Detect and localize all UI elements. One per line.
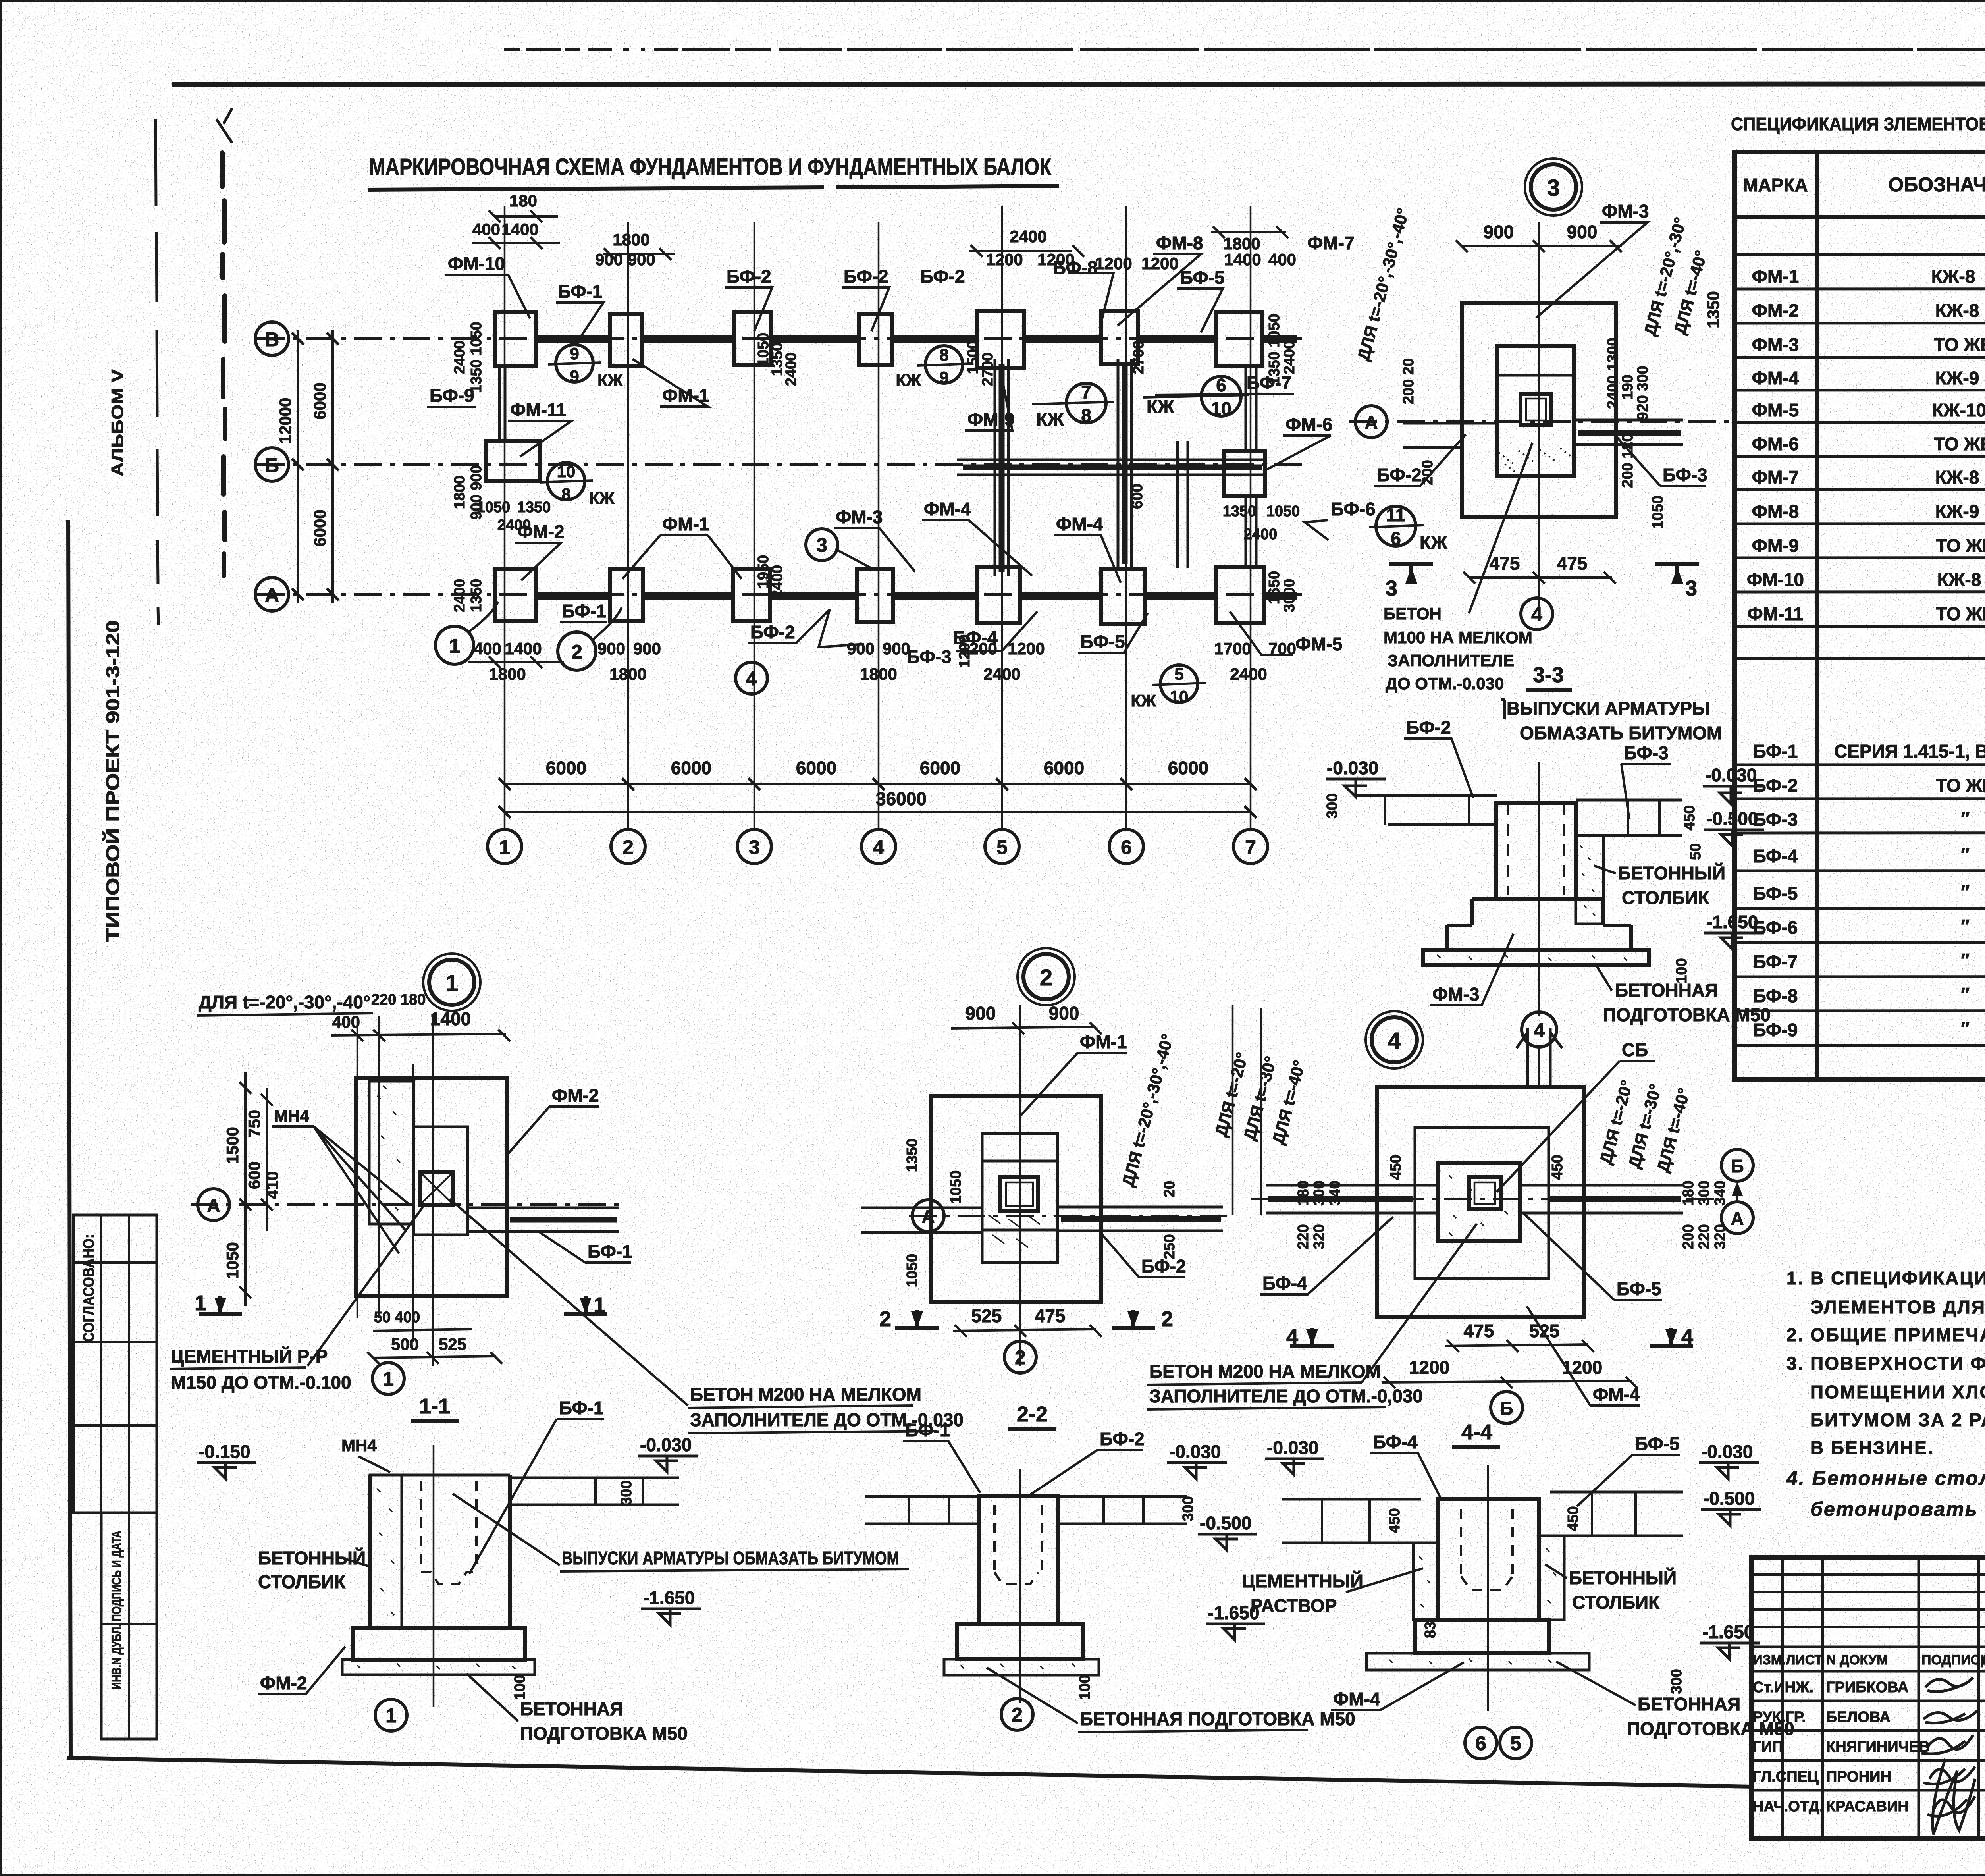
svg-text:ФМ-6: ФМ-6	[1285, 414, 1332, 435]
outer rect	[356, 1078, 507, 1296]
svg-text:А: А	[921, 1206, 935, 1227]
beam BF-9 vertical	[499, 366, 505, 441]
TITLE BLOCK	[1751, 1557, 1985, 1871]
svg-text:БЕЛОВА: БЕЛОВА	[1826, 1709, 1891, 1726]
svg-text:100: 100	[512, 1675, 528, 1700]
svg-text:ОБМАЗАТЬ БИТУМОМ: ОБМАЗАТЬ БИТУМОМ	[1520, 723, 1722, 743]
svg-text:475: 475	[1035, 1305, 1066, 1326]
base slab stippled	[342, 1660, 535, 1675]
svg-text:1350: 1350	[904, 1139, 921, 1172]
footing	[957, 1624, 1083, 1659]
svg-text:1350: 1350	[1223, 503, 1257, 520]
svg-text:100: 100	[1077, 1675, 1093, 1700]
svg-text:4: 4	[1531, 603, 1542, 625]
svg-text:8: 8	[939, 345, 948, 364]
svg-text:1200: 1200	[1409, 1357, 1449, 1378]
pier/column	[1496, 803, 1576, 899]
svg-text:100: 100	[1673, 958, 1690, 983]
svg-text:БФ-1: БФ-1	[1753, 741, 1798, 762]
beam to right	[510, 1478, 679, 1505]
foundation FM-1 col2	[610, 314, 642, 366]
DETAIL 2 plan	[861, 948, 1227, 1429]
top slab lines	[1354, 796, 1497, 825]
svg-text:ПРОНИН: ПРОНИН	[1826, 1768, 1891, 1785]
svg-text:1: 1	[449, 635, 460, 657]
svg-text:2400: 2400	[783, 353, 800, 386]
svg-text:КЖ: КЖ	[1131, 691, 1156, 710]
svg-text:ФМ-10: ФМ-10	[1747, 569, 1804, 590]
svg-text:ВЫПУСКИ АРМАТУРЫ ОБМАЗАТЬ Б: ВЫПУСКИ АРМАТУРЫ ОБМАЗАТЬ БИТУМОМ	[562, 1548, 899, 1568]
svg-text:900: 900	[1049, 1003, 1079, 1024]
svg-text:КЖ: КЖ	[589, 489, 615, 507]
svg-text:750: 750	[245, 1110, 264, 1138]
svg-text:бетонировать в одной опалубк: бетонировать в одной опалубке с фундамен…	[1810, 1498, 1985, 1520]
svg-text:4: 4	[873, 836, 884, 858]
svg-text:ФМ-11: ФМ-11	[1747, 603, 1804, 624]
top dashed border line	[504, 48, 1985, 51]
svg-text:КЖ-8: КЖ-8	[1931, 266, 1975, 287]
svg-text:1400: 1400	[430, 1008, 471, 1029]
svg-text:6000: 6000	[546, 758, 586, 778]
svg-text:БФ-1: БФ-1	[558, 281, 603, 302]
svg-text:БФ-3: БФ-3	[1753, 809, 1798, 830]
detail circle 3	[1531, 164, 1576, 210]
svg-text:БЕТОН М200 НА МЕЛКОМ: БЕТОН М200 НА МЕЛКОМ	[1149, 1361, 1381, 1382]
svg-text:1200: 1200	[1562, 1357, 1602, 1378]
svg-text:БФ-2: БФ-2	[1100, 1429, 1145, 1449]
svg-text:1800: 1800	[451, 476, 468, 509]
svg-text:БФ-2: БФ-2	[1406, 717, 1451, 738]
svg-text:450: 450	[1549, 1155, 1566, 1180]
svg-text:2400: 2400	[983, 665, 1020, 683]
svg-text:ГИП: ГИП	[1753, 1739, 1783, 1755]
stippled pier strip	[369, 1081, 414, 1224]
svg-text:9: 9	[939, 368, 948, 387]
svg-text:БФ-3: БФ-3	[1624, 742, 1669, 763]
svg-text:12000: 12000	[276, 398, 295, 444]
svg-text:400: 400	[1268, 250, 1296, 269]
svg-text:БИТУМОМ ЗА 2 РАЗА ПО ОГРУНТ: БИТУМОМ ЗА 2 РАЗА ПО ОГРУНТОВКЕ ИЗ БИТУМ…	[1810, 1409, 1985, 1430]
svg-text:КЖ-9: КЖ-9	[1935, 501, 1979, 522]
svg-text:КЖ: КЖ	[896, 371, 921, 389]
svg-text:525: 525	[971, 1305, 1002, 1326]
svg-text:320: 320	[1712, 1224, 1729, 1249]
svg-text:6000: 6000	[1044, 758, 1084, 778]
svg-text:БФ-3: БФ-3	[1663, 465, 1707, 485]
kz circle 7/8	[1066, 383, 1106, 423]
svg-text:3: 3	[1547, 175, 1560, 201]
svg-text:А: А	[207, 1195, 220, 1216]
pier rect	[1497, 346, 1574, 476]
base slab	[1423, 950, 1649, 965]
svg-text:КНЯГИНИЧЕВ: КНЯГИНИЧЕВ	[1826, 1739, 1930, 1755]
fm row lines	[1734, 289, 1985, 289]
svg-text:600: 600	[1129, 484, 1146, 509]
svg-text:ДЛЯ t=-20°,-30°,-40°: ДЛЯ t=-20°,-30°,-40°	[1354, 206, 1413, 362]
svg-text:2: 2	[1015, 1346, 1026, 1369]
svg-text:ПОДГОТОВКА М50: ПОДГОТОВКА М50	[1603, 1005, 1771, 1025]
NOTES	[1786, 1268, 1985, 1520]
svg-text:3: 3	[749, 836, 760, 858]
svg-text:БФ-2: БФ-2	[727, 266, 771, 287]
svg-text:-0.500: -0.500	[1703, 1488, 1755, 1509]
svg-text:БФ-8: БФ-8	[1053, 257, 1098, 278]
svg-text:Б: Б	[265, 454, 279, 476]
foundation FM-9 col5	[977, 311, 1024, 368]
svg-text:2400 1300: 2400 1300	[1605, 337, 1621, 409]
svg-text:900: 900	[633, 639, 661, 658]
left margin vertical texts and stamp boxes	[73, 369, 157, 1739]
svg-text:ВЫПУСКИ АРМАТУРЫ: ВЫПУСКИ АРМАТУРЫ	[1507, 698, 1710, 719]
svg-text:900: 900	[1567, 222, 1598, 242]
svg-text:2: 2	[571, 641, 582, 663]
svg-text:БЕТОННАЯ ПОДГОТОВКА М50: БЕТОННАЯ ПОДГОТОВКА М50	[1080, 1708, 1355, 1729]
beams both sides	[1282, 1499, 1421, 1620]
svg-text:1350 1050: 1350 1050	[468, 322, 485, 393]
svg-text:БФ-4: БФ-4	[1373, 1432, 1418, 1452]
svg-text:БФ-5: БФ-5	[1635, 1433, 1680, 1454]
section marks 3	[1389, 564, 1433, 584]
center line	[1538, 762, 1540, 1016]
foundation FM-4 col5	[977, 567, 1020, 623]
svg-text:ФМ-2: ФМ-2	[1752, 300, 1799, 321]
step	[1415, 1620, 1549, 1653]
svg-text:1350: 1350	[1704, 291, 1723, 328]
foundation FM-1 col3	[733, 569, 770, 621]
svg-text:1: 1	[499, 836, 510, 858]
svg-text:-0.030: -0.030	[1705, 765, 1757, 785]
svg-text:1800: 1800	[609, 665, 646, 683]
beams along axis B	[536, 335, 1297, 343]
left outer border (lower)	[68, 520, 71, 1759]
svg-text:1: 1	[383, 1368, 394, 1390]
svg-text:КЖ: КЖ	[1147, 396, 1174, 417]
kz circle 8/9	[925, 346, 963, 383]
circle 1	[375, 1699, 407, 1731]
svg-text:КЖ: КЖ	[1420, 532, 1447, 553]
svg-text:ФМ-4: ФМ-4	[1593, 1384, 1640, 1405]
column with formwork	[1438, 1499, 1539, 1620]
svg-text:2400: 2400	[1010, 227, 1046, 246]
svg-text:1650: 1650	[1266, 571, 1283, 605]
svg-text:-1.650: -1.650	[643, 1587, 695, 1608]
svg-text:6000: 6000	[671, 758, 711, 778]
svg-text:″: ″	[1961, 808, 1970, 829]
svg-text:450: 450	[1565, 1506, 1582, 1531]
circle 4 below	[1521, 598, 1553, 630]
svg-text:36000: 36000	[876, 789, 927, 809]
svg-text:ДАТА: ДАТА	[1981, 1652, 1985, 1668]
svg-text:1500: 1500	[965, 341, 981, 374]
svg-text:2: 2	[622, 836, 634, 858]
left stamp grid upper	[73, 1215, 157, 1513]
svg-text:КЖ-9: КЖ-9	[1935, 368, 1979, 388]
concrete post stippled	[1576, 835, 1603, 924]
svg-text:Б: Б	[1731, 1156, 1744, 1176]
svg-text:-0.030: -0.030	[1327, 758, 1378, 778]
svg-text:200: 200	[1419, 460, 1436, 485]
svg-text:475: 475	[1557, 553, 1588, 574]
svg-text:БФ-8: БФ-8	[1753, 985, 1798, 1006]
svg-text:СТОЛБИК: СТОЛБИК	[258, 1571, 346, 1592]
column circles	[488, 829, 522, 864]
axis A	[191, 1203, 619, 1206]
top column stub	[1517, 1028, 1562, 1088]
center line	[1019, 1469, 1021, 1703]
svg-text:3: 3	[816, 534, 827, 556]
center line	[433, 1445, 435, 1707]
svg-text:5: 5	[1510, 1732, 1521, 1755]
svg-text:410: 410	[263, 1171, 281, 1199]
svg-text:4: 4	[1534, 1019, 1545, 1041]
svg-text:ФМ-8: ФМ-8	[1752, 501, 1799, 522]
svg-text:Ст.ИНЖ.: Ст.ИНЖ.	[1753, 1679, 1813, 1696]
svg-text:ДЛЯ t=-20°,-30°,-40°: ДЛЯ t=-20°,-30°,-40°	[1118, 1032, 1177, 1188]
column vertical lines	[504, 206, 506, 829]
inner rect	[1415, 1128, 1549, 1278]
svg-text:1200: 1200	[956, 634, 973, 668]
svg-text:6000: 6000	[920, 758, 960, 778]
svg-text:В: В	[265, 328, 279, 351]
axis row lines dash-dot	[257, 337, 1310, 340]
svg-text:ИЗМ.ЛИСТ: ИЗМ.ЛИСТ	[1753, 1652, 1823, 1668]
cement patches stippled	[1413, 1543, 1438, 1620]
svg-text:3: 3	[1685, 576, 1697, 600]
svg-text:900: 900	[883, 639, 910, 658]
svg-text:ТО ЖЕ: ТО ЖЕ	[1936, 603, 1985, 624]
svg-text:300: 300	[1311, 1180, 1328, 1205]
svg-text:БЕТОННАЯ: БЕТОННАЯ	[1638, 1694, 1740, 1714]
svg-text:1050: 1050	[477, 499, 511, 516]
svg-text:ФМ-3: ФМ-3	[1602, 201, 1649, 222]
svg-text:ФМ-1: ФМ-1	[1752, 266, 1799, 287]
svg-text:6000: 6000	[310, 382, 329, 419]
svg-text:М100 НА МЕЛКОМ: М100 НА МЕЛКОМ	[1384, 628, 1532, 647]
top slab both sides	[865, 1496, 979, 1524]
glass square	[1000, 1177, 1038, 1211]
inner parts	[414, 1127, 468, 1235]
top solid border line	[172, 84, 1985, 85]
scan artifact vertical streak	[222, 153, 225, 576]
svg-text:200: 200	[1680, 1224, 1697, 1249]
svg-text:СБ: СБ	[1622, 1039, 1648, 1060]
svg-text:8: 8	[1081, 405, 1091, 426]
svg-text:ФМ-10: ФМ-10	[448, 253, 505, 274]
svg-text:3000: 3000	[1281, 579, 1298, 613]
svg-text:-0.030: -0.030	[1701, 1441, 1753, 1462]
signatures squiggles	[1925, 1677, 1973, 1692]
svg-text:900: 900	[1484, 222, 1514, 242]
svg-text:180: 180	[1295, 1180, 1312, 1205]
foundations row B	[495, 311, 1297, 368]
foundation FM-6 col7	[1224, 451, 1265, 496]
svg-text:ОБОЗНАЧЕНИЕ: ОБОЗНАЧЕНИЕ	[1888, 174, 1985, 196]
svg-text:БФ-4: БФ-4	[1753, 846, 1798, 866]
svg-text:2400: 2400	[1281, 341, 1298, 374]
svg-text:920 300: 920 300	[1634, 366, 1651, 420]
svg-text:1350: 1350	[468, 579, 485, 613]
svg-text:БФ-2: БФ-2	[1377, 465, 1422, 485]
svg-text:180: 180	[509, 191, 537, 210]
detail circle 3 in plan	[806, 529, 838, 561]
svg-text:180: 180	[1680, 1180, 1697, 1205]
PLAN VIEW	[255, 206, 1310, 864]
svg-text:КЖ-8: КЖ-8	[1935, 300, 1979, 321]
svg-text:РАСТВОР: РАСТВОР	[1251, 1595, 1337, 1616]
svg-text:340: 340	[1327, 1180, 1343, 1205]
foundations row Bm (axis Б)	[486, 441, 1265, 496]
beams left and right	[1266, 1185, 1438, 1213]
svg-text:4. Бетонные столбики для опо: 4. Бетонные столбики для опоры фундамент…	[1786, 1467, 1985, 1489]
column body	[370, 1475, 510, 1628]
svg-text:БФ-3: БФ-3	[907, 646, 952, 667]
detail circle 4 in plan	[736, 662, 767, 694]
SECTION 1-1	[197, 1199, 964, 1744]
svg-text:10: 10	[557, 462, 576, 481]
stipple strip left	[370, 1475, 402, 1628]
svg-text:1200: 1200	[986, 250, 1023, 269]
svg-text:4: 4	[746, 667, 757, 690]
svg-text:1-1: 1-1	[419, 1394, 450, 1418]
svg-text:ТО ЖЕ: ТО ЖЕ	[1934, 434, 1985, 454]
SECTION 3-3	[1324, 698, 1771, 1088]
svg-text:КЖ-10: КЖ-10	[1932, 400, 1985, 420]
vertical trench at col5	[995, 359, 1008, 576]
beam to right	[468, 1208, 619, 1232]
svg-text:ФМ-6: ФМ-6	[1752, 434, 1799, 454]
footing	[353, 1628, 525, 1660]
left stamp grid lower	[101, 1513, 157, 1739]
SPECIFICATION TABLE	[1731, 114, 1985, 1080]
svg-text:400: 400	[332, 1012, 360, 1031]
svg-text:БЕТОННЫЙ: БЕТОННЫЙ	[1569, 1568, 1677, 1588]
svg-text:БФ-1: БФ-1	[559, 1398, 604, 1418]
svg-text:″: ″	[1961, 916, 1970, 936]
foundation FM-1 col4	[859, 314, 892, 365]
svg-text:БЕТОННЫЙ: БЕТОННЫЙ	[258, 1548, 366, 1568]
svg-text:М150 ДО ОТМ.-0.100: М150 ДО ОТМ.-0.100	[171, 1372, 351, 1393]
svg-text:БФ-6: БФ-6	[1753, 917, 1798, 938]
vertical trench c	[1178, 441, 1188, 568]
svg-text:83: 83	[1422, 1621, 1439, 1638]
base slab	[1366, 1653, 1589, 1670]
svg-text:ЭЛЕМЕНТОВ ДЛЯ t=-20°; t=-: ЭЛЕМЕНТОВ ДЛЯ t=-20°; t=-30°; t=-40° В Т…	[1810, 1297, 1985, 1317]
svg-text:БФ-2: БФ-2	[920, 266, 965, 287]
svg-text:″: ″	[1961, 984, 1970, 1005]
svg-text:″: ″	[1961, 881, 1970, 902]
svg-text:ГЛ.СПЕЦ: ГЛ.СПЕЦ	[1753, 1768, 1819, 1785]
svg-text:ФМ-3: ФМ-3	[1432, 984, 1479, 1005]
svg-text:НАЧ.ОТД.: НАЧ.ОТД.	[1753, 1798, 1824, 1815]
svg-text:-0.030: -0.030	[1169, 1441, 1221, 1462]
svg-text:КЖ-8: КЖ-8	[1935, 467, 1979, 488]
svg-text:ФМ-5: ФМ-5	[1752, 400, 1799, 420]
svg-text:6: 6	[1121, 836, 1132, 858]
svg-text:МН4: МН4	[341, 1436, 377, 1455]
svg-text:450: 450	[1386, 1508, 1403, 1533]
svg-text:ФМ-4: ФМ-4	[1333, 1689, 1380, 1709]
foundation FM-1 col3	[734, 312, 771, 365]
left small grid	[1781, 1557, 1784, 1838]
foundation FM-5 col7	[1216, 567, 1264, 623]
header bottom	[1734, 215, 1985, 219]
svg-text:6: 6	[1216, 375, 1226, 395]
svg-text:КЖ: КЖ	[1036, 409, 1064, 430]
svg-text:А: А	[1364, 412, 1378, 433]
svg-text:СПЕЦИФИКАЦИЯ ЗЛЕМЕНТОВ К МАРКИ: СПЕЦИФИКАЦИЯ ЗЛЕМЕНТОВ К МАРКИРОВОЧНОЙ С…	[1731, 114, 1985, 134]
svg-text:2400: 2400	[1244, 526, 1278, 543]
outer rect	[1377, 1087, 1584, 1317]
svg-text:БФ-5: БФ-5	[1180, 267, 1225, 288]
circles 6 5	[1465, 1727, 1497, 1759]
svg-text:6: 6	[1391, 528, 1401, 549]
plan labels with leaders	[427, 233, 1354, 710]
svg-text:10: 10	[1170, 687, 1189, 706]
kz circle 9/9	[556, 345, 593, 382]
svg-text:1800: 1800	[860, 665, 897, 683]
svg-text:2: 2	[1040, 965, 1052, 991]
detail circle 1	[429, 960, 474, 1005]
foundations row A	[495, 567, 1297, 624]
column glass square	[1521, 394, 1551, 425]
svg-text:-1.650: -1.650	[1702, 1621, 1754, 1642]
svg-text:300: 300	[1668, 1669, 1685, 1694]
svg-text:1050: 1050	[904, 1254, 921, 1288]
svg-text:220: 220	[1295, 1224, 1312, 1249]
svg-text:РУК.ГР.: РУК.ГР.	[1753, 1709, 1806, 1726]
svg-text:ЦЕМЕНТНЫЙ: ЦЕМЕНТНЫЙ	[1242, 1571, 1363, 1591]
table outer frame	[1734, 152, 1985, 1080]
left vertical dimension lines	[297, 330, 299, 603]
svg-text:КЖ-8: КЖ-8	[1937, 569, 1981, 590]
svg-text:ИНВ.N ДУБЛ. ПОДПИСЬ И ДАТА: ИНВ.N ДУБЛ. ПОДПИСЬ И ДАТА	[109, 1531, 124, 1689]
svg-text:БФ-2: БФ-2	[844, 266, 888, 287]
svg-text:ТИПОВОЙ ПРОЕКТ 901-3-120: ТИПОВОЙ ПРОЕКТ 901-3-120	[102, 620, 123, 942]
svg-text:ТО ЖЕ: ТО ЖЕ	[1936, 535, 1985, 556]
svg-text:9: 9	[570, 344, 579, 363]
svg-text:БФ-5: БФ-5	[1080, 631, 1125, 652]
svg-text:БФ-4: БФ-4	[1262, 1273, 1307, 1294]
foundation FM-8 col6	[1101, 311, 1138, 364]
foundation FM-3 col4	[857, 569, 893, 622]
svg-text:10: 10	[1211, 398, 1231, 419]
svg-text:1800: 1800	[489, 665, 526, 683]
svg-text:-0.030: -0.030	[1267, 1437, 1318, 1458]
svg-text:ТО ЖЕ: ТО ЖЕ	[1936, 775, 1985, 796]
detail circle 2	[1023, 954, 1069, 999]
svg-text:-0.150: -0.150	[198, 1441, 250, 1462]
svg-text:2: 2	[1012, 1704, 1023, 1726]
svg-text:″: ″	[1961, 844, 1970, 865]
svg-text:4: 4	[1388, 1028, 1401, 1054]
beam row lines	[1734, 764, 1985, 765]
svg-text:БФ-5: БФ-5	[1617, 1278, 1661, 1299]
SECTION 2-2	[865, 1420, 1355, 1732]
svg-text:БФ-5: БФ-5	[1753, 883, 1798, 904]
svg-text:А: А	[1731, 1208, 1744, 1229]
svg-text:ФМ-4: ФМ-4	[924, 499, 971, 519]
svg-text:КЖ: КЖ	[597, 371, 623, 389]
svg-text:1700: 1700	[1214, 639, 1251, 658]
DETAIL 4 plan	[1147, 1005, 1753, 1423]
svg-text:СТОЛБИК: СТОЛБИК	[1572, 1592, 1660, 1613]
bottom border line	[67, 1758, 1753, 1787]
svg-text:5: 5	[996, 836, 1008, 858]
trench channels between axes	[499, 359, 1266, 576]
inner rect	[982, 1134, 1058, 1263]
svg-text:200 20: 200 20	[1400, 358, 1417, 404]
outer footprint rect	[1462, 303, 1616, 517]
